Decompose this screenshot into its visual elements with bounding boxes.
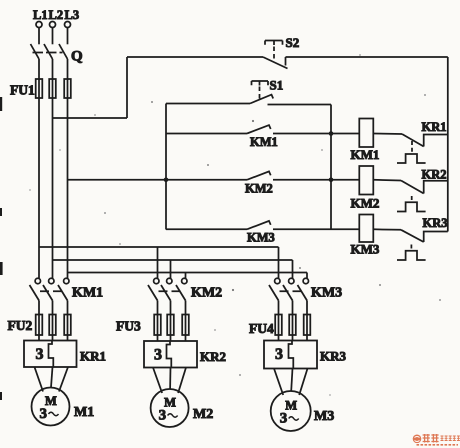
fuse FU1 pole1 wire xyxy=(38,79,40,98)
terminal circle L1 xyxy=(36,22,42,28)
motor M2 text 3 xyxy=(159,408,167,424)
wire branch1 pole1 fuse to relay box xyxy=(38,335,40,341)
coil KM2 xyxy=(359,166,373,195)
wire L3 vertical to bus xyxy=(67,98,69,273)
contactor KM2 pole2 terminal circle xyxy=(167,278,172,283)
label 3 inside KR2 xyxy=(154,347,162,364)
contactor KM3 pole3 blade xyxy=(298,285,308,301)
wire branch2 pole3 drop xyxy=(185,273,187,279)
bus L2 horizontal xyxy=(53,259,293,261)
wire branch1 pole2 fuse to relay box xyxy=(52,335,54,341)
label KR3 xyxy=(423,216,448,230)
contactor KM3 pole2 blade xyxy=(283,285,293,301)
wire branch3 pole3 fuse to relay box xyxy=(306,335,308,341)
motor M1 tilde xyxy=(49,412,59,416)
svg-text:3: 3 xyxy=(275,346,283,363)
wire branch2 pole1 drop xyxy=(157,247,159,278)
label FU3 xyxy=(116,319,141,334)
label KR3 xyxy=(320,349,347,364)
label Q xyxy=(71,49,83,65)
wire branch1 pole2 drop xyxy=(52,260,54,278)
svg-text:3: 3 xyxy=(40,406,48,422)
wire branch3 pole3 to fuse xyxy=(306,301,308,316)
switch Q pole 3 blade xyxy=(59,44,68,59)
relay KR2 heater symbol xyxy=(397,202,426,211)
fuse FU3 pole3 xyxy=(182,315,189,336)
label KM3 contact xyxy=(247,231,275,245)
motor M1 letter M xyxy=(45,394,57,408)
svg-text:KR1: KR1 xyxy=(80,349,106,364)
wire tap riser x=127 xyxy=(126,57,128,118)
thermal relay KR3 box xyxy=(264,341,317,369)
wire rung2 left xyxy=(166,179,247,181)
fuse FU3 pole2 xyxy=(167,315,174,336)
wire L3 terminal to Q xyxy=(67,28,69,45)
svg-text:M3: M3 xyxy=(314,409,334,424)
wire S2 to right rail xyxy=(286,56,448,58)
svg-text:FU2: FU2 xyxy=(8,318,33,333)
wire rung2 middle xyxy=(273,179,359,181)
label KR2 xyxy=(422,168,447,182)
wire branch3 pole2 drop xyxy=(292,260,294,278)
wire KR1 box to motor right xyxy=(59,367,68,392)
terminal circle L2 xyxy=(50,22,56,28)
wire rung1 left xyxy=(166,133,247,135)
bus L1 horizontal xyxy=(39,246,279,248)
svg-text:KM2: KM2 xyxy=(191,286,222,301)
wire branch1 pole1 drop xyxy=(38,247,40,278)
svg-text:KR2: KR2 xyxy=(200,349,226,364)
relay contact KR1 riser xyxy=(424,135,448,147)
contactor KM3 pole1 terminal circle xyxy=(275,278,280,283)
wire rung1 coil to KR1 xyxy=(373,133,402,136)
label S2 xyxy=(286,35,300,50)
wire KR2 box to motor right xyxy=(178,368,186,394)
label FU2 xyxy=(8,318,33,333)
wire branch1 pole2 to fuse xyxy=(52,301,54,316)
svg-text:S2: S2 xyxy=(286,35,300,50)
label KR2 xyxy=(200,349,226,364)
label M3 xyxy=(314,409,334,424)
wire branch3 pole3 drop xyxy=(306,273,308,279)
fuse FU3 pole1 wire xyxy=(157,315,159,336)
fuse FU2 pole3 wire xyxy=(67,315,69,336)
thermal relay KR1 box xyxy=(24,341,77,368)
wire branch2 pole1 to fuse xyxy=(157,301,159,316)
wire KR1 box to motor middle xyxy=(51,367,53,388)
svg-text:M2: M2 xyxy=(193,407,213,422)
contactor KM3 pole1 blade xyxy=(269,285,279,301)
contactor KM1 pole1 blade xyxy=(30,285,40,301)
label L3 xyxy=(65,8,80,22)
relay contact KR3 riser xyxy=(424,232,448,243)
wire L2 terminal to Q xyxy=(52,28,54,45)
svg-text:KM2: KM2 xyxy=(245,182,273,196)
svg-text:KM3: KM3 xyxy=(247,231,275,245)
svg-text:3: 3 xyxy=(154,347,162,364)
wire L3 tap to left rail xyxy=(68,179,167,181)
relay contact KR2 blade xyxy=(401,181,424,194)
switch Q linkage dashed line xyxy=(33,52,63,54)
motor M2 circle xyxy=(151,389,189,427)
contactor KM2 linkage dashed line xyxy=(159,290,185,292)
wire rung3 coil to KR3 xyxy=(373,228,401,231)
wire branch1 pole3 to fuse xyxy=(67,301,69,316)
fuse FU1 pole1 xyxy=(36,79,43,98)
label KM2 contact xyxy=(245,182,273,196)
label KM3 coil xyxy=(351,242,380,257)
label FU4 xyxy=(249,321,274,336)
label M1 xyxy=(74,405,94,420)
label KR1 xyxy=(422,120,447,134)
contactor KM2 pole1 terminal circle xyxy=(154,278,159,283)
motor M3 text 3 xyxy=(280,411,288,427)
label 3 inside KR3 xyxy=(275,346,283,363)
motor M3 tilde xyxy=(289,417,299,421)
wire branch1 pole3 drop xyxy=(67,273,69,279)
wire rung2 coil to KR2 xyxy=(373,179,401,182)
svg-text:KR2: KR2 xyxy=(422,168,447,182)
contact KM3 blade xyxy=(247,221,271,229)
wire L2 vertical to bus xyxy=(52,98,54,260)
terminal circle L3 xyxy=(65,22,71,28)
thermal relay KR2 heater step xyxy=(167,341,172,368)
label L1 xyxy=(33,8,48,22)
label KM2 power contacts xyxy=(191,286,222,301)
motor M3 circle xyxy=(271,391,311,431)
junction node A rung2 xyxy=(329,178,334,183)
svg-text:3: 3 xyxy=(159,408,167,424)
svg-text:KM1: KM1 xyxy=(351,147,380,162)
motor M2 tilde xyxy=(168,414,178,418)
motor M3 letter M xyxy=(285,399,297,413)
label KM2 coil xyxy=(351,196,380,211)
thermal relay KR3 heater step xyxy=(289,341,294,369)
relay contact KR2 riser xyxy=(424,181,448,194)
label 3 inside KR1 xyxy=(36,346,44,363)
contact KM1 (self-hold) blade xyxy=(247,125,271,133)
label M2 xyxy=(193,407,213,422)
wire KR3 box to motor middle xyxy=(291,369,292,392)
motor M2 letter M xyxy=(164,396,176,410)
relay KR1 heater symbol xyxy=(397,154,426,163)
fuse FU4 pole3 xyxy=(304,315,311,336)
thermal relay KR2 box xyxy=(144,341,197,368)
relay KR1 actuator dashes xyxy=(411,141,413,153)
scan artifact left edge 2 xyxy=(0,208,2,216)
fuse FU2 pole1 xyxy=(36,315,43,336)
fuse FU4 pole2 wire xyxy=(292,315,294,336)
wire left rail to S1 xyxy=(166,103,250,105)
wire rung3 middle xyxy=(273,228,359,230)
relay KR3 heater symbol xyxy=(397,251,426,260)
wire KR1 box to motor left xyxy=(35,367,44,392)
fuse FU4 pole2 xyxy=(289,315,296,336)
wire riser to S2 xyxy=(127,56,263,58)
svg-text:L1: L1 xyxy=(33,8,48,22)
watermark logo xyxy=(413,434,460,445)
fuse FU1 pole3 xyxy=(64,79,71,98)
wire branch3 pole1 drop xyxy=(278,247,280,278)
fuse FU2 pole1 wire xyxy=(38,315,40,336)
svg-text:L3: L3 xyxy=(65,8,80,22)
fuse FU3 pole1 xyxy=(154,315,161,336)
wire rung3 left xyxy=(166,228,247,230)
relay contact KR1 blade xyxy=(402,134,424,147)
push button S2 right terminal xyxy=(285,57,287,66)
svg-text:3: 3 xyxy=(36,346,44,363)
fuse FU2 pole2 xyxy=(49,315,56,336)
wire branch2 pole2 drop xyxy=(170,260,172,278)
contactor KM1 linkage dashed line xyxy=(40,290,66,292)
label L2 xyxy=(49,8,64,22)
scan artifact left edge 4 xyxy=(0,392,2,400)
push button S2 actuator dashes xyxy=(273,47,275,62)
wire rung1 middle xyxy=(273,133,359,135)
wire KR2 box to motor left xyxy=(153,368,162,394)
coil KM1 xyxy=(359,119,373,148)
scan artifact left edge 1 xyxy=(0,97,2,111)
wire branch2 pole2 to fuse xyxy=(170,301,172,316)
svg-text:KM3: KM3 xyxy=(311,286,342,301)
wire KR3 box to motor left xyxy=(274,369,283,396)
wire branch3 pole1 fuse to relay box xyxy=(278,335,280,341)
push button S2 cap xyxy=(265,41,283,46)
svg-text:FU4: FU4 xyxy=(249,321,274,336)
contactor KM2 pole1 blade xyxy=(148,285,158,301)
fuse FU2 pole3 xyxy=(64,315,71,336)
wire L1 terminal to Q xyxy=(38,28,40,45)
svg-text:Q: Q xyxy=(71,49,83,65)
wire left rail xyxy=(165,104,167,230)
label S1 xyxy=(270,78,284,93)
wire branch2 pole1 fuse to relay box xyxy=(157,335,159,341)
contactor KM3 pole3 terminal circle xyxy=(303,278,308,283)
junction left rail / KM2 rung xyxy=(164,178,169,183)
wire Q pole1 to FU1 xyxy=(38,59,40,80)
wire branch3 pole1 to fuse xyxy=(278,301,280,316)
svg-text:M1: M1 xyxy=(74,405,94,420)
contactor KM3 pole2 terminal circle xyxy=(289,278,294,283)
bus L3 horizontal xyxy=(68,272,308,274)
relay contact KR3 blade xyxy=(401,230,424,242)
fuse FU4 pole3 wire xyxy=(306,315,308,336)
contact KM2 blade xyxy=(247,171,271,179)
svg-text:L2: L2 xyxy=(49,8,64,22)
label KM1 contact xyxy=(250,135,278,149)
wire right rail xyxy=(447,57,449,232)
wire L1 vertical to bus xyxy=(38,98,40,247)
thermal relay KR1 heater step xyxy=(49,341,54,368)
wire tap L2 to S2 (horizontal) xyxy=(53,117,128,119)
label KR1 xyxy=(80,349,106,364)
wire branch3 pole2 to fuse xyxy=(292,301,294,316)
wire Q pole3 to FU1 xyxy=(67,59,69,80)
svg-text:KR3: KR3 xyxy=(320,349,347,364)
svg-text:S1: S1 xyxy=(270,78,284,93)
push button S1 actuator dashes xyxy=(259,87,261,101)
relay KR3 actuator dashes xyxy=(410,245,412,250)
fuse FU1 pole2 xyxy=(49,79,56,98)
push button S1 cap xyxy=(252,81,269,86)
contactor KM2 pole3 blade xyxy=(176,285,186,301)
wire KR3 box to motor right xyxy=(299,369,307,396)
push button S1 blade xyxy=(250,95,273,104)
svg-text:KR3: KR3 xyxy=(423,216,448,230)
contactor KM3 linkage dashed line xyxy=(280,290,306,292)
scan artifact left edge 3 xyxy=(0,262,3,275)
svg-text:KM3: KM3 xyxy=(351,242,380,257)
svg-text:KM1: KM1 xyxy=(72,286,103,301)
contactor KM2 pole2 blade xyxy=(161,285,171,301)
fuse FU2 pole2 wire xyxy=(52,315,54,336)
coil KM3 xyxy=(359,215,373,243)
contactor KM1 pole3 terminal circle xyxy=(64,278,69,283)
contactor KM1 pole2 blade xyxy=(43,285,53,301)
fuse FU4 pole1 xyxy=(275,315,282,336)
label KM3 power contacts xyxy=(311,286,342,301)
push button S2 blade xyxy=(263,57,288,69)
svg-text:KM1: KM1 xyxy=(250,135,278,149)
switch Q pole 2 blade xyxy=(44,44,53,59)
wire branch2 pole3 to fuse xyxy=(185,301,187,316)
label FU1 xyxy=(10,83,35,98)
junction node A rung1 xyxy=(329,131,334,136)
wire branch1 pole3 fuse to relay box xyxy=(67,335,69,341)
switch Q pole 1 blade xyxy=(31,44,40,59)
wire branch1 pole1 to fuse xyxy=(38,301,40,316)
label KM1 power contacts xyxy=(72,286,103,301)
fuse FU4 pole1 wire xyxy=(278,315,280,336)
contactor KM2 pole3 terminal circle xyxy=(182,278,187,283)
contactor KM1 pole2 terminal circle xyxy=(49,278,54,283)
fuse FU1 pole3 wire xyxy=(67,79,69,98)
svg-text:FU1: FU1 xyxy=(10,83,35,98)
wire branch3 pole2 fuse to relay box xyxy=(292,335,294,341)
wire branch2 pole2 fuse to relay box xyxy=(170,335,172,341)
motor M1 text 3 xyxy=(40,406,48,422)
wire Q pole2 to FU1 xyxy=(52,59,54,80)
scan speckles xyxy=(29,54,441,396)
fuse FU3 pole2 wire xyxy=(170,315,172,336)
svg-text:KM2: KM2 xyxy=(351,196,380,211)
wire branch2 pole3 fuse to relay box xyxy=(185,335,187,341)
motor M1 circle xyxy=(32,388,70,426)
relay KR2 actuator dashes xyxy=(411,196,413,202)
contactor KM1 pole1 terminal circle xyxy=(35,278,40,283)
svg-text:3: 3 xyxy=(280,411,288,427)
fuse FU3 pole3 wire xyxy=(185,315,187,336)
fuse FU1 pole2 wire xyxy=(52,79,54,98)
svg-text:FU3: FU3 xyxy=(116,319,141,334)
wire KR2 box to motor middle xyxy=(169,368,171,390)
wire node A vertical xyxy=(330,105,332,230)
wire S1 to node A xyxy=(268,104,332,106)
label KM1 coil xyxy=(351,147,380,162)
contactor KM1 pole3 blade xyxy=(58,285,68,301)
svg-text:KR1: KR1 xyxy=(422,120,447,134)
